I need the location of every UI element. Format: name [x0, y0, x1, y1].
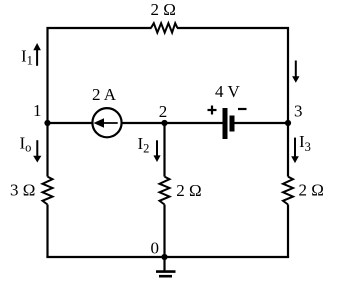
wire top-left segment — [48, 28, 152, 123]
node 0 — [161, 254, 167, 260]
resistor R-left 3ohm — [43, 177, 53, 205]
wire left vertical upper — [46, 123, 48, 177]
battery V1 4V — [223, 108, 228, 139]
wire right vertical lower — [287, 205, 289, 258]
svg-text:2: 2 — [159, 102, 168, 121]
svg-text:2 Ω: 2 Ω — [176, 181, 201, 200]
svg-text:3: 3 — [294, 102, 303, 121]
svg-text:I3: I3 — [299, 132, 311, 154]
wire battery to node3 — [235, 122, 289, 124]
svg-text:I1: I1 — [21, 47, 33, 68]
wire node1 to current source — [48, 122, 93, 124]
current arrow I3 — [294, 138, 296, 157]
svg-text:2 Ω: 2 Ω — [299, 181, 324, 200]
svg-text:0: 0 — [151, 239, 160, 258]
wire right vertical upper — [287, 123, 289, 177]
svg-text:3 Ω: 3 Ω — [10, 181, 35, 200]
node 1 — [44, 120, 50, 126]
label minus — [238, 108, 247, 110]
svg-text:1: 1 — [33, 101, 42, 120]
wire top-right segment — [177, 28, 288, 123]
ground — [163, 257, 165, 272]
svg-text:I2: I2 — [138, 134, 150, 156]
resistor R-mid 2ohm — [160, 177, 170, 205]
node 3 — [285, 120, 291, 126]
svg-text:2 Ω: 2 Ω — [151, 0, 176, 19]
wire bottom rail — [46, 256, 289, 258]
current arrow right branch down — [295, 61, 297, 78]
wire middle vertical upper — [163, 123, 165, 177]
node 2 — [161, 120, 167, 126]
current arrow I2 — [156, 140, 158, 156]
resistor R-top 2ohm — [151, 23, 177, 32]
svg-text:2 A: 2 A — [92, 85, 117, 104]
svg-text:Io: Io — [20, 134, 32, 155]
current arrow I1 — [36, 50, 38, 66]
resistor R-right 2ohm — [283, 177, 293, 205]
svg-text:4 V: 4 V — [215, 82, 240, 101]
label plus — [208, 109, 217, 111]
current arrow Io — [36, 140, 38, 156]
wire middle vertical lower — [163, 205, 165, 258]
current source U1 2A — [92, 108, 121, 137]
wire current source to battery — [122, 122, 223, 124]
wire left vertical lower — [46, 205, 48, 258]
